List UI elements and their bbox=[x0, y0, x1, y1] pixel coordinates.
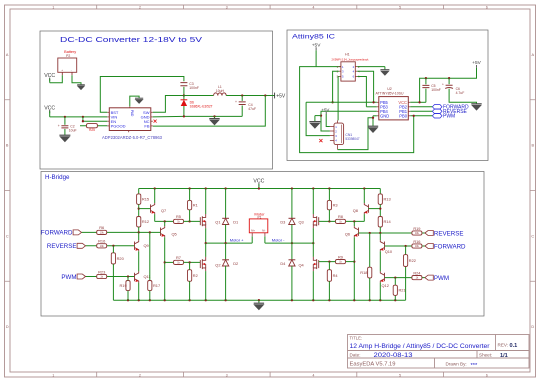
svg-text:M+: M+ bbox=[251, 229, 255, 233]
node Q8 base bbox=[379, 207, 381, 209]
section box Attiny85 IC bbox=[287, 30, 488, 161]
node C6 top bbox=[448, 77, 450, 79]
svg-text:ADP2302ARDZ-5.0-R7_C78963: ADP2302ARDZ-5.0-R7_C78963 bbox=[102, 135, 162, 140]
svg-text:Motor +: Motor + bbox=[230, 238, 244, 243]
wire PB4 line bbox=[321, 111, 377, 131]
svg-text:0.1: 0.1 bbox=[510, 343, 518, 349]
svg-text:H1: H1 bbox=[345, 52, 350, 56]
svg-text:R17: R17 bbox=[153, 283, 160, 288]
wire Q2 drain bbox=[205, 243, 207, 257]
resistor R1 bbox=[188, 200, 198, 209]
node gnd rail 395.3 bbox=[394, 299, 396, 301]
node FB top bbox=[264, 94, 266, 96]
transistor Q2 MOSFET bbox=[200, 257, 220, 271]
svg-text:2X3MPI-2.54_Jumpyspeedtrack: 2X3MPI-2.54_Jumpyspeedtrack bbox=[332, 58, 370, 62]
svg-text:GND: GND bbox=[380, 113, 389, 118]
svg-text:TITLE:: TITLE: bbox=[350, 335, 363, 340]
svg-text:B: B bbox=[532, 144, 535, 148]
wire Q1 drain bbox=[205, 189, 207, 215]
wire CN1 bottom loop bbox=[338, 118, 373, 150]
svg-text:***: *** bbox=[471, 363, 479, 369]
svg-text:1: 1 bbox=[52, 6, 54, 10]
node R4 top bbox=[328, 260, 330, 262]
svg-text:R1: R1 bbox=[193, 203, 198, 208]
svg-text:R13: R13 bbox=[384, 197, 391, 202]
svg-text:PWM: PWM bbox=[61, 274, 76, 281]
node Q9 collector top bbox=[138, 231, 140, 233]
transistor Q1 MOSFET bbox=[200, 214, 220, 228]
transistor Q6 bbox=[345, 226, 359, 237]
wire H1 pin2 to ground bbox=[357, 66, 385, 68]
wire Q2 source bbox=[205, 271, 207, 300]
svg-text:R3: R3 bbox=[333, 203, 338, 208]
node R9 tap bbox=[353, 260, 355, 262]
wire motor left pin bbox=[251, 236, 253, 243]
svg-text:R7: R7 bbox=[176, 255, 181, 260]
svg-text:D4: D4 bbox=[280, 261, 286, 266]
transistor Q7 bbox=[151, 203, 167, 214]
power flag +5V (output) bbox=[275, 93, 286, 100]
node U2 gnd bbox=[372, 117, 374, 119]
wire REVERSE line bbox=[86, 245, 135, 247]
svg-text:5: 5 bbox=[399, 373, 401, 377]
wire Q5 emitter down bbox=[164, 237, 166, 300]
wire Q9 collector bbox=[138, 232, 140, 240]
svg-text:Q2: Q2 bbox=[215, 263, 220, 268]
wire R15-R12 bbox=[138, 204, 140, 216]
svg-text:PAD: PAD bbox=[130, 110, 134, 117]
wire R1 top bbox=[189, 189, 191, 201]
node rail 313.3 bbox=[312, 187, 314, 189]
svg-text:Q4: Q4 bbox=[298, 263, 304, 268]
node PB4/gnd bbox=[320, 114, 322, 116]
resistor R22 bbox=[404, 255, 416, 267]
svg-text:Motor -: Motor - bbox=[272, 238, 285, 243]
resistor R4 bbox=[327, 270, 338, 282]
node Q6 collector bbox=[353, 220, 355, 222]
wire Q6 base / REVERSE line bbox=[359, 232, 425, 234]
wire Q12 base / PWM line bbox=[385, 277, 425, 279]
wire battery minus to ground bbox=[72, 75, 81, 85]
resistor R13 bbox=[378, 194, 390, 205]
section box DC-DC Converter bbox=[40, 31, 273, 169]
wire Q8 collector bbox=[363, 189, 365, 204]
wire PB2 to flag bbox=[410, 106, 432, 108]
wire Q1 source to motor+ bbox=[205, 228, 207, 243]
wire R18 bottom bbox=[369, 278, 371, 300]
wire R2 bbox=[189, 262, 191, 269]
node R22 top bbox=[404, 245, 406, 247]
resistor R3 bbox=[327, 200, 337, 209]
node rail 364.3 bbox=[363, 187, 365, 189]
svg-text:R18: R18 bbox=[360, 270, 367, 275]
wire R22 bbox=[405, 246, 407, 255]
svg-text:2: 2 bbox=[139, 6, 141, 10]
power flag VCC (battery) bbox=[44, 73, 55, 81]
net PWM (left) bbox=[61, 274, 85, 281]
resistor R18 bbox=[360, 267, 372, 278]
wire H1 pin5 to CN1 top bbox=[337, 77, 340, 121]
svg-text:100nF: 100nF bbox=[189, 86, 199, 90]
svg-text:DC-DC Converter 12-18V to 5V: DC-DC Converter 12-18V to 5V bbox=[60, 37, 202, 44]
capacitor C3 100nF bbox=[180, 82, 199, 96]
wire PB3 line bbox=[366, 106, 376, 108]
svg-text:PWM: PWM bbox=[434, 275, 449, 282]
wire R13-R14 bbox=[379, 204, 381, 216]
svg-text:10uF: 10uF bbox=[69, 129, 77, 133]
battery P2 bbox=[58, 50, 77, 75]
capacitor C5 100nF bbox=[422, 78, 440, 102]
resistor R19 bbox=[412, 226, 422, 235]
wire H1 pin3 to PB5 bbox=[333, 71, 339, 102]
svg-text:H-Bridge: H-Bridge bbox=[45, 174, 70, 181]
wire R3 top bbox=[328, 189, 330, 201]
node gnd rail 138.7 bbox=[138, 299, 140, 301]
node D1/D2 bbox=[224, 242, 226, 244]
pin CN1-4 no-connect bbox=[319, 139, 322, 142]
wire battery plus to VCC bbox=[49, 79, 51, 83]
node PB5 junction bbox=[331, 101, 333, 103]
net REVERSE (left) bbox=[47, 243, 86, 250]
wire VCC top rail bbox=[139, 188, 381, 190]
resistor R16 bbox=[97, 239, 107, 248]
wire Q4 gate line bbox=[346, 261, 355, 263]
wire Q6 collector bbox=[353, 221, 355, 226]
wire R17 bottom bbox=[149, 291, 151, 301]
transistor Q3 MOSFET bbox=[298, 214, 318, 228]
ground (U2) bbox=[368, 126, 379, 133]
capacitor C4 47uF bbox=[235, 96, 256, 117]
svg-text:+: + bbox=[58, 124, 60, 128]
diode D1 bbox=[222, 189, 238, 244]
node VIN/C2 bbox=[64, 116, 66, 118]
diode D6 bbox=[181, 96, 213, 117]
net FORWARD (attiny) bbox=[432, 105, 469, 111]
wire R14 to REVERSE line bbox=[379, 227, 381, 233]
wire FORWARD line bbox=[82, 231, 161, 233]
ground (PAD) bbox=[130, 96, 144, 106]
svg-text:R25: R25 bbox=[89, 128, 95, 132]
svg-text:12 Amp H-Bridge / Attiny85 / D: 12 Amp H-Bridge / Attiny85 / DC-DC Conve… bbox=[350, 343, 490, 350]
svg-text:A: A bbox=[6, 53, 9, 57]
svg-text:FB: FB bbox=[144, 124, 149, 129]
svg-text:R21: R21 bbox=[399, 288, 406, 293]
resistor R6 bbox=[97, 225, 107, 234]
node PB0 loop bbox=[413, 115, 415, 117]
svg-text:R19: R19 bbox=[413, 226, 420, 231]
wire R5 to Q1 gate bbox=[184, 220, 201, 222]
node rail 225.6 bbox=[224, 187, 226, 189]
transistor Q12 bbox=[380, 271, 389, 287]
wire Q10 base / FORWARD line bbox=[385, 245, 425, 247]
wire gnd stub bbox=[258, 300, 260, 303]
wire FB feedback bbox=[153, 96, 265, 127]
node R1 bottom bbox=[188, 220, 190, 222]
svg-text:10uH: 10uH bbox=[216, 89, 225, 93]
wire Q3 source bbox=[312, 228, 314, 243]
wire R9 to Q4 gate bbox=[319, 261, 336, 263]
node SW/C3/D6 bbox=[183, 94, 185, 96]
title block bbox=[348, 335, 530, 370]
svg-text:Q10: Q10 bbox=[385, 249, 393, 254]
wire PB5 to CN1 pin3 bbox=[306, 102, 330, 135]
node R20 top bbox=[112, 245, 114, 247]
node R17 top bbox=[149, 231, 151, 233]
wire motor+ rail bbox=[206, 242, 253, 244]
wire Q8 base bbox=[369, 208, 381, 210]
wire R1 bottom bbox=[189, 210, 191, 222]
node gnd rail 258.9 bbox=[258, 299, 260, 301]
svg-text:PWM: PWM bbox=[443, 114, 455, 120]
node pin4/PB5 bbox=[372, 101, 374, 103]
svg-text:-: - bbox=[71, 68, 72, 72]
node gnd rail 380.3 bbox=[379, 299, 381, 301]
wire R7 to Q2 gate bbox=[184, 261, 201, 263]
svg-text:R15: R15 bbox=[142, 197, 149, 202]
node gnd rail 225.6 bbox=[224, 299, 226, 301]
wire +5V to CN1 pin1 bbox=[326, 114, 330, 127]
svg-text:+: + bbox=[61, 68, 63, 72]
wire H1 pin6 to PB3 bbox=[357, 77, 366, 107]
wire R20 bottom bbox=[112, 264, 114, 300]
svg-text:Q9: Q9 bbox=[144, 243, 149, 248]
wire Q12 emitter bbox=[379, 283, 381, 301]
node Q5 collector bbox=[164, 220, 166, 222]
diode D2 bbox=[222, 243, 238, 300]
svg-text:FORWARD: FORWARD bbox=[41, 230, 73, 237]
svg-text:4.7uF: 4.7uF bbox=[456, 91, 465, 95]
diode D4 bbox=[280, 243, 295, 300]
node rail 154.7 bbox=[154, 187, 156, 189]
wire SW to LC node bbox=[153, 96, 184, 113]
svg-text:Attiny85 IC: Attiny85 IC bbox=[292, 34, 335, 41]
svg-text:R22: R22 bbox=[409, 258, 416, 263]
ground (regulator) bbox=[209, 116, 220, 125]
ground (H1 pin2) bbox=[380, 70, 389, 76]
capacitor C6 4.7uF bbox=[442, 78, 476, 104]
node rail 258.9 bbox=[258, 187, 260, 189]
node gnd rail 313.3 bbox=[312, 299, 314, 301]
svg-text:R20: R20 bbox=[117, 256, 125, 261]
svg-text:Q8: Q8 bbox=[353, 208, 358, 213]
node gnd rail 189.6 bbox=[188, 299, 190, 301]
resistor R12 bbox=[137, 217, 149, 228]
svg-text:2: 2 bbox=[139, 373, 141, 377]
wire R19b bbox=[127, 277, 129, 281]
inductor L1 10uH bbox=[214, 85, 227, 95]
node gnd rail 128 bbox=[127, 299, 129, 301]
svg-text:R19: R19 bbox=[120, 283, 127, 288]
svg-text:R8: R8 bbox=[338, 214, 343, 219]
wire GND rail bbox=[153, 115, 184, 118]
node gnd rail 369.7 bbox=[369, 299, 371, 301]
node VIN/EN jumper bbox=[82, 116, 84, 118]
node gnd rail 329.4 bbox=[328, 299, 330, 301]
node rail 205.7 bbox=[205, 187, 207, 189]
resistor R25 bbox=[87, 124, 98, 133]
svg-text:Q5: Q5 bbox=[172, 232, 177, 237]
node gnd rail 354.3 bbox=[353, 299, 355, 301]
svg-text:Sheet:: Sheet: bbox=[479, 353, 492, 358]
transistor Q5 bbox=[161, 226, 177, 237]
resistor R20 bbox=[111, 253, 124, 264]
ground (battery) bbox=[77, 85, 86, 90]
wire Q2 gate line bbox=[165, 261, 174, 263]
diode D3 bbox=[280, 189, 295, 244]
wire ground rail bbox=[113, 299, 405, 301]
node R2 top bbox=[188, 261, 190, 263]
net PWM (attiny) bbox=[432, 114, 455, 120]
svg-text:3: 3 bbox=[226, 373, 228, 377]
net PWM (right) bbox=[425, 275, 449, 282]
svg-text:D: D bbox=[531, 325, 534, 329]
node gnd rail 291.9 bbox=[291, 299, 293, 301]
wire PB0 to flag bbox=[410, 115, 432, 117]
node R21 top bbox=[394, 276, 396, 278]
svg-text:+: + bbox=[442, 82, 444, 86]
wire U2 GND stub bbox=[373, 115, 377, 117]
transistor Q9 bbox=[135, 240, 149, 251]
wire +5V to H1 pin1 bbox=[315, 50, 317, 66]
node gnd rail 205.7 bbox=[205, 299, 207, 301]
node VCC line bbox=[418, 101, 420, 103]
resistor R8 bbox=[336, 214, 346, 223]
svg-text:4: 4 bbox=[312, 373, 314, 377]
svg-text:R24: R24 bbox=[413, 270, 421, 275]
node rail 291.9 bbox=[291, 187, 293, 189]
wire Q7 collector bbox=[154, 189, 156, 204]
node rail 189.6 bbox=[188, 187, 190, 189]
svg-text:2020-08-13: 2020-08-13 bbox=[374, 353, 414, 359]
node gnd rail 149.8 bbox=[149, 299, 151, 301]
node R7 tap bbox=[164, 261, 166, 263]
wire R3 bottom bbox=[328, 210, 330, 222]
resistor R14 bbox=[378, 217, 391, 228]
svg-text:Q3: Q3 bbox=[298, 220, 303, 225]
node C4 top bbox=[241, 94, 243, 96]
wire L1 to +5V bbox=[226, 95, 274, 97]
wire VIN rail bbox=[49, 111, 51, 117]
node Q10 collector bbox=[379, 232, 381, 234]
IC U2 ATTINY85 bbox=[376, 87, 411, 120]
svg-text:D: D bbox=[6, 325, 9, 329]
svg-text:5: 5 bbox=[399, 6, 401, 10]
svg-text:+: + bbox=[235, 100, 237, 104]
resistor R5 bbox=[174, 214, 184, 223]
svg-text:EasyEDA V5.7.19: EasyEDA V5.7.19 bbox=[350, 362, 396, 368]
wire Q7 base bbox=[139, 208, 151, 210]
svg-text:PB0: PB0 bbox=[399, 113, 407, 118]
wire Q4 source bbox=[312, 271, 314, 300]
node R19b top bbox=[127, 275, 129, 277]
svg-text:R23: R23 bbox=[98, 269, 105, 274]
svg-text:47uF: 47uF bbox=[248, 107, 256, 111]
svg-text:D2: D2 bbox=[233, 261, 238, 266]
node R3 bottom bbox=[328, 220, 330, 222]
svg-text:Q12: Q12 bbox=[382, 283, 389, 288]
wire SW node to L1 bbox=[184, 95, 214, 97]
ground (C2) bbox=[59, 135, 70, 142]
transistor Q10 bbox=[380, 240, 393, 254]
node R18 top bbox=[369, 232, 371, 234]
wire PGOOD bbox=[80, 125, 107, 127]
svg-text:R6: R6 bbox=[99, 225, 104, 230]
svg-text:R16: R16 bbox=[98, 239, 105, 244]
wire PB5 line bbox=[306, 101, 377, 103]
node EN bbox=[82, 120, 84, 122]
svg-text:B: B bbox=[6, 144, 9, 148]
node gnd rail 164.7 bbox=[164, 299, 166, 301]
wire H1 pin4 to PB5 bbox=[357, 71, 373, 102]
op-amp U3 regulator ADP2302 bbox=[102, 106, 162, 140]
wire Q9 emitter to Q11 bbox=[138, 251, 140, 271]
wire R15 column bbox=[138, 189, 140, 194]
power flag +5V (U2) bbox=[472, 60, 481, 68]
node Q1/Q2 bbox=[205, 242, 207, 244]
svg-text:+5V: +5V bbox=[321, 107, 329, 112]
resistor R17 bbox=[148, 281, 160, 291]
svg-text:R4: R4 bbox=[333, 273, 339, 278]
wire R18 drop bbox=[369, 233, 371, 267]
resistor R9 bbox=[336, 254, 346, 263]
svg-text:3: 3 bbox=[226, 6, 228, 10]
svg-text:4: 4 bbox=[312, 6, 314, 10]
svg-text:M-: M- bbox=[262, 229, 265, 233]
net REVERSE (attiny) bbox=[432, 109, 467, 115]
wire Q3 drain bbox=[312, 189, 314, 215]
wire motor right pin bbox=[264, 236, 266, 243]
wire motor- rail bbox=[265, 242, 313, 244]
svg-text:Q1: Q1 bbox=[215, 220, 220, 225]
wire Q10 collector bbox=[379, 233, 381, 240]
ground (bridge) bbox=[253, 303, 264, 310]
svg-text:Date:: Date: bbox=[350, 353, 361, 358]
svg-text:REVERSE: REVERSE bbox=[47, 243, 77, 250]
wire PWM line bbox=[86, 276, 135, 278]
svg-text:FORWARD: FORWARD bbox=[434, 243, 466, 250]
wire R20 top bbox=[112, 246, 114, 253]
resistor R24 bbox=[412, 270, 422, 279]
power flag VCC (input) bbox=[44, 105, 55, 113]
wire Q4 drain bbox=[312, 243, 314, 257]
wire BST loop bbox=[100, 77, 184, 113]
svg-text:+5V: +5V bbox=[276, 94, 286, 100]
svg-text:Drawn By:: Drawn By: bbox=[446, 362, 467, 367]
net REVERSE (right) bbox=[425, 230, 464, 237]
node C5 top bbox=[425, 77, 427, 79]
wire Q7 emitter to gate line bbox=[154, 214, 156, 221]
svg-text:U2: U2 bbox=[387, 87, 392, 91]
wire R12 to FORWARD line bbox=[138, 227, 140, 232]
svg-text:Q7: Q7 bbox=[161, 208, 166, 213]
svg-text:53398047: 53398047 bbox=[345, 137, 359, 141]
node Q7 base bbox=[138, 207, 140, 209]
node D3/D4 bbox=[291, 242, 293, 244]
resistor R2 bbox=[188, 270, 198, 282]
ground (C6) bbox=[471, 104, 482, 111]
capacitor C2 10uF bbox=[58, 117, 77, 135]
wire R13 column bbox=[379, 189, 381, 194]
transistor Q4 MOSFET bbox=[298, 257, 318, 271]
svg-text:R16: R16 bbox=[413, 239, 420, 244]
wire R21 bbox=[394, 278, 396, 286]
svg-text:REVERSE: REVERSE bbox=[434, 230, 464, 237]
svg-text:D1: D1 bbox=[233, 220, 238, 225]
svg-text:R9: R9 bbox=[338, 254, 343, 259]
svg-text:C: C bbox=[6, 234, 9, 238]
svg-text:REV:: REV: bbox=[498, 343, 509, 348]
svg-text:C: C bbox=[531, 234, 534, 238]
